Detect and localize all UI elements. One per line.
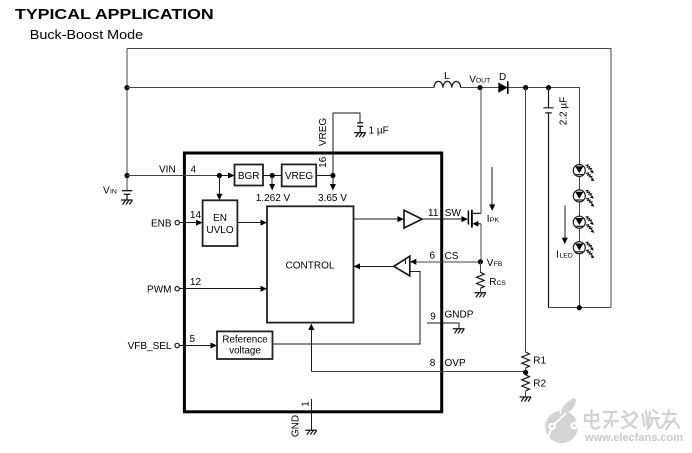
resistor R2 [522,375,530,397]
svg-text:R1: R1 [533,356,546,367]
label R1 [533,356,546,367]
driver buffer A1 [404,210,422,228]
svg-text:V: V [103,186,110,197]
ground GNDP [453,329,465,334]
svg-text:Buck-Boost Mode: Buck-Boost Mode [30,28,143,42]
title [15,6,214,22]
LED D2 [573,190,594,207]
pin 14 ENB terminal [175,220,203,226]
diode D [498,81,508,94]
box VREG [282,164,317,186]
pin 6 CS wire [410,259,481,265]
svg-text:TYPICAL APPLICATION: TYPICAL APPLICATION [15,6,214,22]
svg-text:1.262 V: 1.262 V [256,193,291,204]
svg-text:12: 12 [190,277,202,288]
node VFB [478,259,483,264]
pin number 12 [190,277,202,288]
svg-text:L: L [444,70,450,82]
pin 1 GND wire [310,399,312,430]
box BGR [235,165,264,186]
svg-text:www.elecfans.com: www.elecfans.com [584,432,683,444]
pin 9 GNDP wire [427,323,459,329]
pin number 16 [318,156,329,168]
pin 12 PWM terminal [175,286,267,292]
label GND pin [290,415,301,437]
svg-text:VIN: VIN [159,164,176,175]
svg-text:LED: LED [560,253,573,260]
svg-text:FB: FB [494,261,503,268]
junction VIN branch [124,173,129,178]
label VFB_SEL [128,341,172,352]
wire M1 source [480,224,482,262]
label IPK [487,214,500,225]
svg-text:R2: R2 [533,379,546,390]
box Reference voltage [217,331,273,359]
wire VREG out [316,175,333,177]
label L [444,70,450,82]
wire comparator out [354,263,394,269]
box CONTROL [267,206,354,322]
svg-text:Reference: Reference [222,334,268,345]
svg-text:GND: GND [290,415,301,437]
label D [499,72,506,83]
pin number 11 [428,208,439,219]
pin number 8 [430,358,436,369]
svg-text:IN: IN [110,189,117,196]
transistor M1 [468,210,481,228]
svg-text:UVLO: UVLO [206,225,233,236]
svg-text:2.2 µF: 2.2 µF [559,97,570,126]
label VREG pin [318,118,329,147]
arrow 3.65V [330,176,336,191]
pin 11 SW wire [422,216,468,222]
svg-text:1: 1 [300,401,311,407]
pin 5 VFB_SEL terminal [175,343,217,349]
label 2.2 uF [559,97,570,126]
ground R2 [520,397,532,402]
svg-text:9: 9 [430,312,436,323]
LED D3 [573,216,594,233]
LED D4 [573,242,594,259]
label GNDP [445,309,474,320]
label 1 uF [369,126,389,137]
ground CIN [121,200,133,205]
junction top branch [124,85,129,90]
wire VOUT to R1 [525,88,527,352]
svg-text:I: I [556,250,559,261]
inductor L [434,81,461,87]
svg-text:CS: CS [445,251,459,262]
wire bottom rail [549,307,612,309]
wire LED23 [578,202,580,216]
ILED arrow [562,206,568,245]
wire EN UVLO to CONTROL [237,220,267,226]
pin number 1 [300,401,311,407]
svg-text:CONTROL: CONTROL [286,261,335,272]
svg-text:VREG: VREG [318,118,329,147]
wire LED12 [578,177,580,191]
ground RCS [474,293,486,298]
svg-text:6: 6 [430,251,436,262]
label ILED [556,250,573,261]
wire LED34 [578,228,580,242]
svg-text:GNDP: GNDP [445,309,474,320]
resistor R1 [522,352,530,368]
pin number 9 [430,312,436,323]
label VFB [487,258,503,269]
pin number 14 [190,210,202,221]
label SW [445,208,462,219]
IPK arrow [489,167,495,211]
junction R1 branch [523,85,528,90]
label VIN source [103,186,117,197]
svg-text:16: 16 [318,156,329,168]
OVP to control arrow [308,324,314,372]
svg-text:14: 14 [190,210,202,221]
svg-text:D: D [499,72,506,83]
LED D1 [573,165,594,182]
label 3.65 V [318,193,347,204]
capacitor 2.2uF [543,88,553,308]
svg-text:11: 11 [428,208,439,219]
wire LED return [578,254,580,308]
svg-text:R: R [489,277,496,288]
ground 1uF [354,133,366,138]
svg-text:OVP: OVP [445,358,466,369]
label CS [445,251,459,262]
svg-text:PWM: PWM [147,285,171,296]
wire M1 drain [480,88,482,214]
svg-text:8: 8 [430,358,436,369]
resistor RCS [477,262,485,293]
wire reference out [273,272,420,344]
pin number 6 [430,251,436,262]
junction VREG out [330,173,335,178]
label PWM [147,285,171,296]
pin number 4 [191,164,197,175]
capacitor 1uF [357,123,363,133]
subtitle Buck-Boost Mode [30,28,143,42]
pin 4 wire VIN [127,173,235,179]
label ENB [151,219,172,230]
arrow VIN to EN UVLO [216,176,222,201]
svg-text:ENB: ENB [151,219,172,230]
watermark logo [545,398,578,443]
watermark url [584,432,683,444]
label RCS [489,277,506,288]
ground GND [305,430,317,435]
label R2 [533,379,546,390]
svg-text:V: V [487,258,494,269]
IC U1 body [184,153,441,412]
arrow 1.262V [269,176,275,191]
label VOUT [469,75,490,86]
svg-text:CS: CS [497,280,507,287]
junction LED return [577,305,582,310]
capacitor CIN [122,191,132,200]
svg-text:PK: PK [490,217,500,224]
watermark text 电子发烧友 [585,410,679,429]
pin 16 wire VREG [333,113,360,175]
svg-text:VFB_SEL: VFB_SEL [128,341,172,352]
label VIN pin [159,164,176,175]
svg-text:1 µF: 1 µF [369,126,389,137]
wire CONTROL to buffer [354,216,405,222]
wire BGR out [263,175,282,177]
svg-text:SW: SW [445,208,462,219]
box EN UVLO [203,200,238,246]
junction VIN internal [217,173,222,178]
svg-text:4: 4 [191,164,197,175]
svg-text:3.65 V: 3.65 V [318,193,347,204]
wire top rail [127,48,611,50]
wire VOUT rail [127,88,579,166]
svg-text:BGR: BGR [238,171,260,182]
wire left input rail [126,49,128,191]
junction BGR out [270,173,275,178]
pin 8 OVP wire [311,371,525,373]
svg-text:EN: EN [213,213,227,224]
pin number 5 [190,334,196,345]
junction R1R2 [523,368,528,375]
svg-text:voltage: voltage [229,346,261,357]
junction 2.2uF branch [546,85,551,90]
svg-text:5: 5 [190,334,196,345]
svg-text:VREG: VREG [285,171,314,182]
svg-text:OUT: OUT [476,78,490,85]
node VOUT [477,85,482,90]
label 1.262 V [256,193,291,204]
comparator A2 [394,256,410,276]
wire right rail [610,49,612,308]
label OVP [445,358,466,369]
